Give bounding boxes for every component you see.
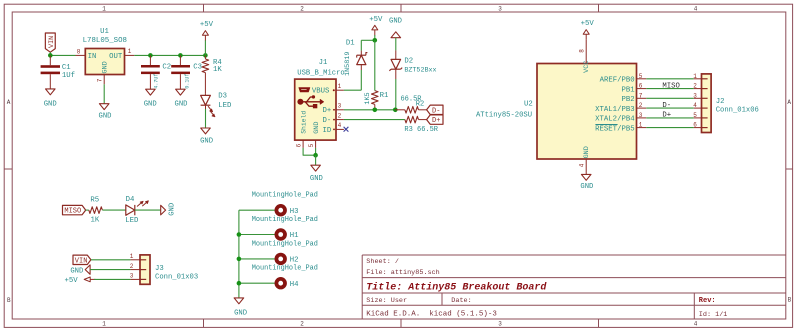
svg-text:IN: IN	[88, 53, 97, 61]
svg-text:GND: GND	[168, 203, 176, 216]
svg-text:D4: D4	[126, 196, 135, 204]
svg-text:R5: R5	[90, 197, 99, 205]
svg-text:GND: GND	[175, 100, 188, 108]
svg-text:5: 5	[639, 73, 643, 80]
svg-text:OUT: OUT	[109, 53, 123, 61]
svg-text:MountingHole_Pad: MountingHole_Pad	[252, 265, 318, 273]
svg-text:+5V: +5V	[64, 277, 78, 285]
svg-text:H4: H4	[290, 281, 299, 289]
svg-text:KiCad E.D.A. kicad (5.1.5)-3: KiCad E.D.A. kicad (5.1.5)-3	[366, 310, 497, 318]
svg-text:J1: J1	[319, 59, 328, 67]
svg-text:XTAL2/PB4: XTAL2/PB4	[595, 116, 635, 124]
svg-text:GND: GND	[99, 112, 112, 120]
svg-text:GND: GND	[144, 100, 157, 108]
svg-text:PB2: PB2	[621, 96, 634, 104]
svg-text:GND: GND	[310, 175, 323, 183]
svg-text:1: 1	[130, 253, 134, 260]
svg-text:GND: GND	[44, 100, 57, 108]
svg-text:1: 1	[128, 48, 132, 55]
svg-text:A: A	[7, 99, 11, 106]
svg-text:File: attiny85.sch: File: attiny85.sch	[366, 269, 439, 277]
svg-text:D-: D-	[432, 107, 440, 115]
svg-text:USB_B_Micro: USB_B_Micro	[297, 69, 344, 77]
svg-text:R3 66.5R: R3 66.5R	[404, 126, 438, 134]
svg-text:+5V: +5V	[581, 20, 595, 28]
svg-text:H3: H3	[290, 208, 299, 216]
svg-text:D+: D+	[662, 112, 671, 120]
svg-text:MISO: MISO	[64, 208, 81, 216]
svg-text:GND: GND	[580, 183, 593, 191]
svg-text:7: 7	[639, 92, 643, 99]
svg-text:H1: H1	[290, 232, 299, 240]
svg-text:2: 2	[693, 83, 697, 90]
svg-text:GND: GND	[234, 310, 247, 318]
svg-text:VIN: VIN	[48, 36, 56, 48]
svg-text:U2: U2	[524, 101, 533, 109]
svg-text:J3: J3	[155, 265, 164, 273]
svg-text:GND: GND	[313, 122, 321, 134]
svg-text:Size: User: Size: User	[366, 297, 407, 305]
svg-text:1: 1	[338, 83, 342, 90]
svg-text:8: 8	[579, 49, 586, 53]
svg-text:MountingHole_Pad: MountingHole_Pad	[252, 240, 318, 248]
svg-text:1K: 1K	[91, 216, 100, 224]
svg-text:Shield: Shield	[300, 111, 307, 134]
svg-text:Sheet: /: Sheet: /	[366, 258, 399, 266]
svg-text:1: 1	[693, 73, 697, 80]
svg-text:4.7Uf: 4.7Uf	[153, 74, 159, 89]
svg-text:C2: C2	[162, 64, 171, 72]
svg-text:LED: LED	[218, 102, 232, 110]
svg-text:3: 3	[130, 273, 134, 280]
svg-text:6: 6	[693, 122, 697, 129]
svg-text:1: 1	[639, 122, 643, 129]
svg-text:D-: D-	[662, 102, 671, 110]
svg-text:VIN: VIN	[75, 257, 88, 265]
svg-text:ID: ID	[323, 127, 332, 135]
svg-text:VCC: VCC	[583, 61, 591, 73]
svg-text:A: A	[787, 99, 791, 106]
svg-text:D-: D-	[323, 117, 332, 125]
svg-text:Conn_01x06: Conn_01x06	[716, 107, 759, 115]
svg-text:GND: GND	[583, 146, 591, 158]
svg-text:0.1Uf: 0.1Uf	[184, 74, 190, 89]
svg-text:Date:: Date:	[451, 297, 471, 305]
svg-text:1N5819: 1N5819	[344, 52, 352, 76]
svg-text:L78L05_SO8: L78L05_SO8	[83, 37, 127, 45]
svg-text:ATtiny85-20SU: ATtiny85-20SU	[476, 111, 532, 119]
svg-text:LED: LED	[125, 217, 139, 225]
svg-text:D+: D+	[323, 107, 332, 115]
svg-text:3: 3	[693, 92, 697, 99]
svg-text:5: 5	[308, 143, 315, 147]
svg-text:+5V: +5V	[369, 16, 383, 24]
svg-text:6: 6	[639, 83, 643, 90]
svg-text:D1: D1	[346, 39, 355, 47]
svg-text:5: 5	[693, 112, 697, 119]
svg-text:2: 2	[639, 102, 643, 109]
svg-text:1: 1	[102, 5, 106, 12]
svg-text:XTAL1/PB3: XTAL1/PB3	[595, 106, 634, 114]
svg-text:4: 4	[693, 102, 697, 109]
svg-text:B: B	[7, 297, 11, 304]
svg-text:4: 4	[578, 163, 585, 167]
svg-text:VBUS: VBUS	[312, 88, 330, 96]
svg-text:D+: D+	[432, 117, 440, 125]
svg-text:3: 3	[498, 5, 502, 12]
svg-text:MISO: MISO	[662, 82, 680, 90]
svg-text:D2: D2	[404, 57, 413, 65]
svg-text:GND: GND	[389, 17, 402, 25]
svg-text:4: 4	[694, 5, 698, 12]
svg-text:H2: H2	[290, 257, 299, 265]
svg-text:Conn_01x03: Conn_01x03	[155, 273, 198, 281]
svg-text:3: 3	[498, 321, 502, 328]
svg-text:MountingHole_Pad: MountingHole_Pad	[252, 216, 318, 224]
svg-text:GND: GND	[102, 61, 110, 73]
svg-text:R1: R1	[380, 92, 389, 100]
svg-text:+5V: +5V	[200, 21, 214, 29]
svg-text:2: 2	[300, 5, 304, 12]
svg-text:1Uf: 1Uf	[62, 72, 75, 80]
svg-text:7: 7	[97, 78, 104, 82]
svg-text:GND: GND	[70, 267, 83, 275]
svg-text:3: 3	[639, 112, 643, 119]
svg-text:C3: C3	[193, 64, 202, 72]
svg-text:6: 6	[296, 143, 303, 147]
svg-text:B: B	[788, 296, 792, 303]
svg-text:1: 1	[102, 321, 106, 328]
svg-text:3: 3	[338, 103, 342, 110]
svg-text:PB1: PB1	[621, 86, 635, 94]
svg-text:4: 4	[694, 321, 698, 328]
svg-text:4: 4	[338, 122, 342, 129]
svg-text:MountingHole_Pad: MountingHole_Pad	[252, 192, 318, 200]
svg-text:U1: U1	[100, 28, 109, 36]
svg-text:R2: R2	[416, 101, 424, 109]
svg-text:Title: Attiny85 Breakout Board: Title: Attiny85 Breakout Board	[366, 282, 547, 294]
svg-text:2: 2	[130, 263, 134, 270]
svg-text:BZT52Bxx: BZT52Bxx	[404, 67, 436, 75]
svg-text:AREF/PB0: AREF/PB0	[600, 77, 635, 85]
svg-text:8: 8	[77, 48, 81, 55]
svg-text:RESET/PB5: RESET/PB5	[595, 125, 634, 133]
svg-text:D3: D3	[218, 93, 227, 101]
svg-text:2: 2	[338, 112, 342, 119]
svg-text:1K: 1K	[213, 66, 222, 74]
svg-text:Id: 1/1: Id: 1/1	[699, 311, 728, 319]
svg-text:GND: GND	[200, 137, 213, 145]
svg-text:2: 2	[300, 321, 304, 328]
svg-text:1K5: 1K5	[364, 92, 372, 104]
svg-text:C1: C1	[62, 64, 71, 72]
svg-text:Rev:: Rev:	[699, 297, 716, 305]
svg-text:J2: J2	[716, 98, 725, 106]
